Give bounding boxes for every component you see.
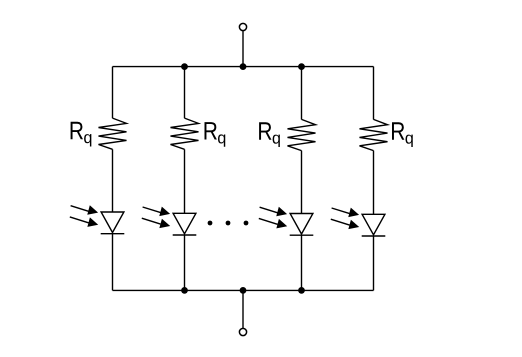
resistor Rq branch 1 [99, 118, 127, 149]
branch 4: wire middle [373, 151, 375, 215]
top terminal wire [242, 31, 244, 67]
bottom terminal wire [242, 290, 244, 328]
photodiode D1 [70, 205, 125, 233]
bottom terminal circle [239, 328, 246, 335]
branch 1: wire middle [112, 149, 114, 212]
label Rq branch 2 [204, 122, 225, 147]
label Rq branch 1 [71, 122, 92, 147]
bottom rail [113, 289, 374, 291]
branch 1: wire top [112, 67, 114, 119]
branch 3: wire top [301, 67, 303, 120]
branch 2: wire top [184, 67, 186, 119]
branch 4: wire top [373, 67, 375, 120]
photodiode D4 [331, 208, 386, 236]
resistor Rq branch 3 [288, 119, 316, 150]
branch 2: wire bottom [184, 235, 186, 290]
node: top junction [240, 63, 247, 70]
branch 4: wire bottom [373, 236, 375, 290]
branch 2: wire middle [184, 149, 186, 213]
branch 1: wire bottom [112, 234, 114, 291]
branch 3: wire middle [301, 151, 303, 214]
resistor Rq branch 2 [171, 118, 199, 149]
node: bottom junction [240, 287, 247, 294]
photodiode D2 [142, 207, 197, 235]
photodiode D3 [259, 207, 314, 235]
branch 3: wire bottom [301, 235, 303, 290]
ellipsis dots [208, 221, 213, 226]
node: top rail branch 3 [298, 63, 305, 70]
node: bottom rail branch 2 [181, 287, 188, 294]
label Rq branch 4 [392, 122, 413, 147]
label Rq branch 3 [259, 122, 280, 147]
top rail [113, 66, 374, 68]
resistor Rq branch 4 [360, 119, 388, 150]
top terminal circle [239, 23, 246, 30]
node: bottom rail branch 3 [298, 287, 305, 294]
node: top rail branch 2 [181, 63, 188, 70]
